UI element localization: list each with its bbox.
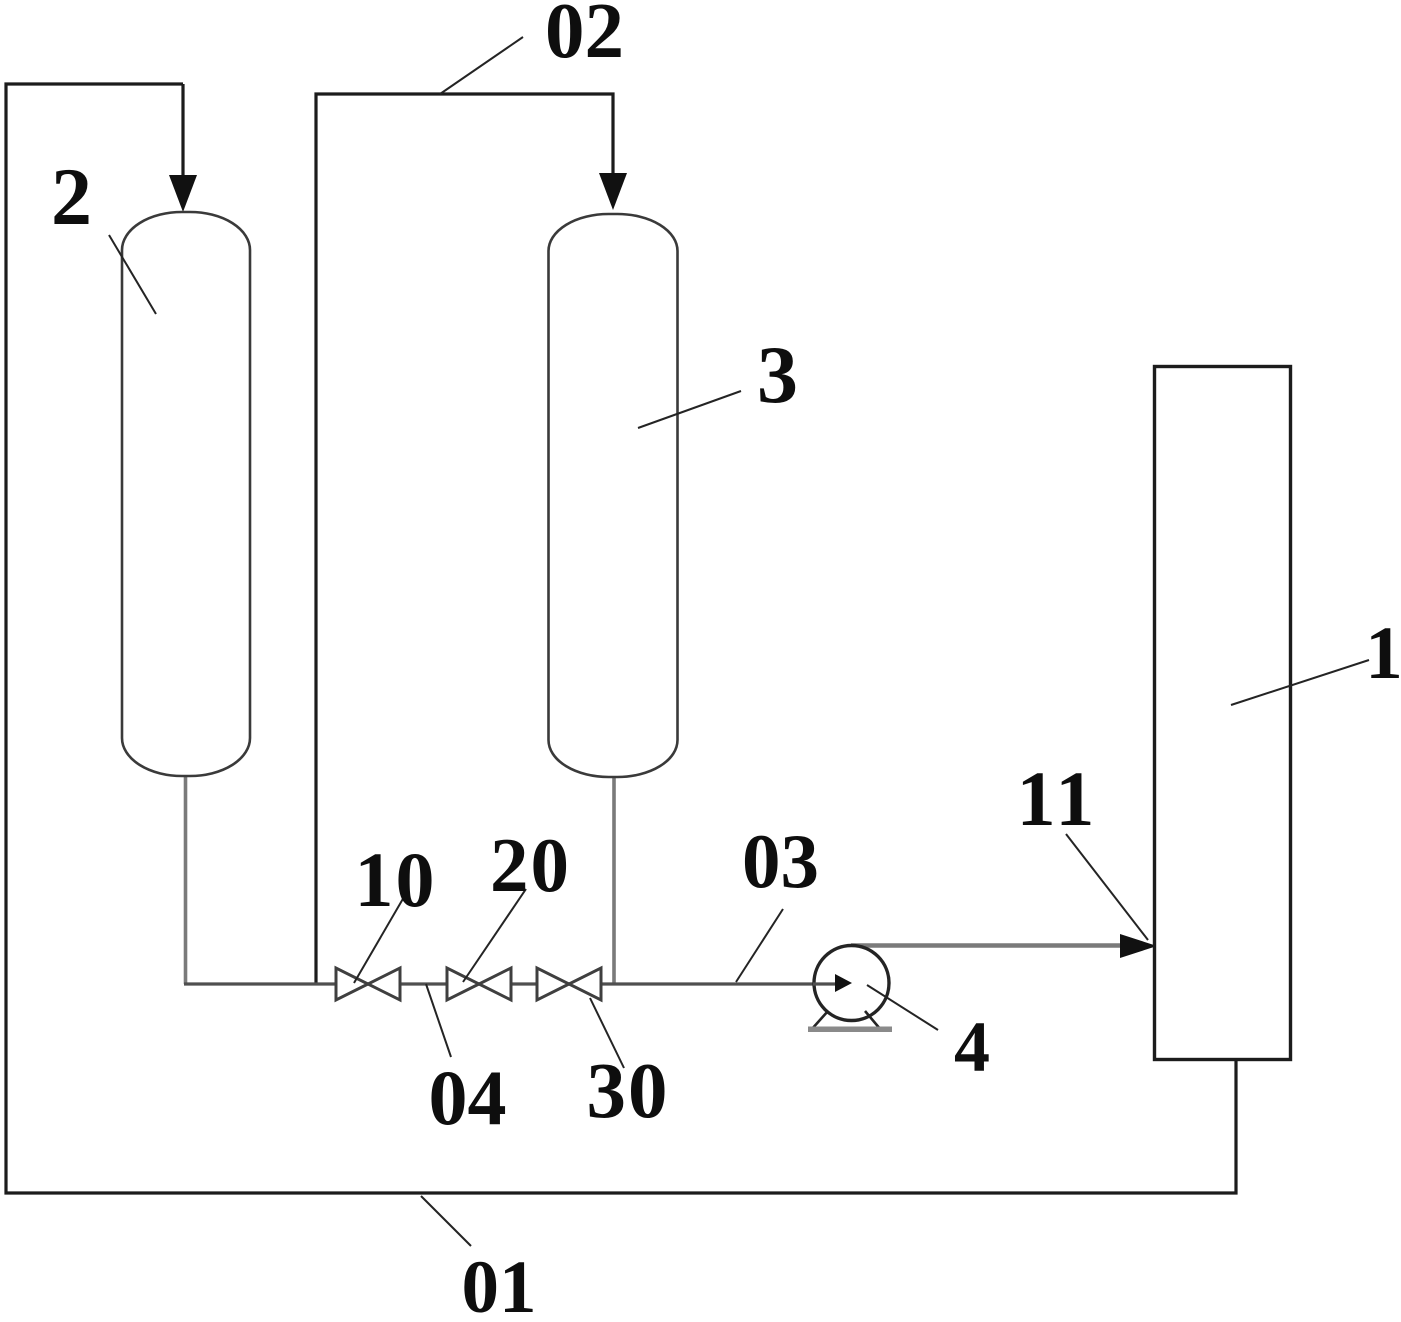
svg-text:04: 04 — [429, 1054, 507, 1141]
svg-text:3: 3 — [757, 329, 798, 420]
svg-text:11: 11 — [1017, 755, 1099, 842]
svg-text:30: 30 — [587, 1048, 670, 1135]
svg-text:4: 4 — [954, 1007, 990, 1087]
svg-text:10: 10 — [355, 836, 437, 923]
svg-text:02: 02 — [545, 0, 624, 75]
svg-text:2: 2 — [51, 151, 92, 242]
svg-text:03: 03 — [742, 818, 819, 904]
svg-text:1: 1 — [1365, 612, 1401, 695]
svg-text:20: 20 — [490, 822, 571, 908]
svg-text:01: 01 — [462, 1246, 537, 1317]
